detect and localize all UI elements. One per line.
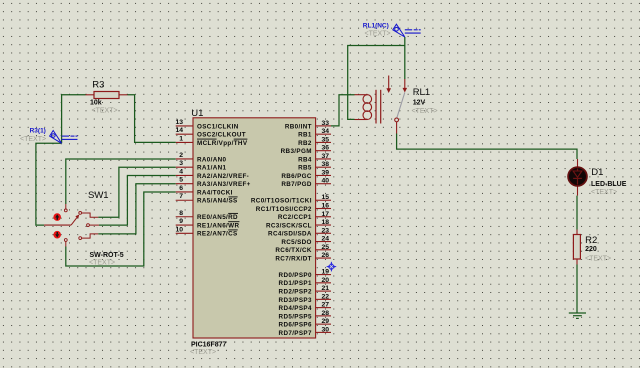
svg-text:RB1: RB1 (298, 132, 312, 139)
relay RL1 fixed contact pin (403, 79, 408, 93)
pin 2 (RA0/AN0) left stub (176, 152, 227, 163)
svg-text:RD5/PSP5: RD5/PSP5 (279, 313, 312, 320)
svg-text:RE2/AN7/CS: RE2/AN7/CS (197, 231, 238, 238)
svg-text:RE1/AN6/WR: RE1/AN6/WR (197, 222, 239, 229)
ground (569, 313, 586, 318)
value LED-BLUE (591, 181, 627, 188)
svg-text:14: 14 (175, 127, 183, 134)
relay RL1 core (376, 90, 381, 124)
svg-text:6: 6 (179, 185, 183, 192)
svg-text:RB2: RB2 (298, 140, 312, 147)
svg-text:SW-ROT-5: SW-ROT-5 (90, 252, 124, 259)
svg-text:<TEXT>: <TEXT> (412, 108, 438, 115)
svg-text:21: 21 (322, 285, 330, 292)
svg-text:20: 20 (322, 277, 330, 284)
relay RL1 pivot and pin (395, 118, 399, 134)
svg-text:R3: R3 (92, 80, 104, 91)
svg-text:U1: U1 (191, 108, 203, 119)
svg-text:7: 7 (179, 193, 183, 200)
svg-text:17: 17 (322, 211, 330, 218)
svg-text:RA1/AN1: RA1/AN1 (197, 165, 227, 172)
svg-text:RL1: RL1 (413, 87, 430, 98)
svg-text:4: 4 (179, 168, 183, 175)
diode D1 (LED-BLUE) (568, 159, 587, 196)
pin 7 (RA5/AN4/SS) left stub (176, 193, 238, 204)
pin 33 (RB0/INT) right stub (285, 120, 331, 130)
property label TEXT of R3 (92, 108, 118, 115)
svg-text:RA4/T0CKI: RA4/T0CKI (197, 189, 233, 196)
svg-text:RC4/SDI/SDA: RC4/SDI/SDA (268, 231, 312, 238)
svg-text:28: 28 (322, 310, 330, 317)
svg-text:RB3/PGM: RB3/PGM (281, 148, 312, 155)
svg-text:12V: 12V (413, 99, 426, 106)
pin 9 (RE1/AN6/WR) left stub (176, 218, 240, 229)
svg-text:24: 24 (322, 236, 330, 243)
svg-text:10k: 10k (90, 100, 102, 107)
svg-text:RD3/PSP3: RD3/PSP3 (279, 297, 312, 304)
overline CS (pin 10) (228, 229, 238, 231)
pin 38 (RB5) right stub (298, 161, 331, 171)
label U1 (191, 108, 203, 119)
pin 25 (RC6/TX/CK) right stub (275, 244, 331, 254)
value 10k (90, 100, 102, 107)
property label TEXT of RL1 (412, 108, 438, 115)
pin 37 (RB4) right stub (298, 153, 331, 163)
pin 8 (RE0/AN5/RD) left stub (176, 210, 238, 221)
IC U1 body (PIC16F877 microcontroller) (193, 118, 316, 338)
svg-text:RL1(NC): RL1(NC) (363, 22, 389, 29)
svg-text:RB0/INT: RB0/INT (285, 123, 312, 130)
svg-text:<TEXT>: <TEXT> (591, 189, 617, 196)
pin 16 (RC1/T1OSI/CCP2) right stub (256, 203, 331, 213)
pin 39 (RB6/PGC) right stub (281, 169, 331, 179)
svg-text:27: 27 (322, 302, 330, 309)
svg-text:RD4/PSP4: RD4/PSP4 (279, 305, 312, 312)
svg-text:10: 10 (175, 226, 183, 233)
pin 22 (RD3/PSP3) right stub (279, 293, 331, 303)
pin 36 (RB3/PGM) right stub (281, 145, 331, 155)
svg-text:<TEXT>: <TEXT> (92, 108, 118, 115)
pin 24 (RC5/SDO) right stub (281, 236, 331, 246)
pin 6 (RA4/T0CKI) left stub (176, 185, 233, 196)
svg-text:35: 35 (322, 136, 330, 143)
relay RL1 movable blade (397, 93, 405, 118)
svg-text:16: 16 (322, 203, 330, 210)
wire SW1 contact2 to pin 3 (98, 167, 175, 217)
svg-text:R2: R2 (585, 235, 597, 246)
svg-text:<TEXT>: <TEXT> (190, 349, 216, 356)
svg-text:RE0/AN5/RD: RE0/AN5/RD (197, 214, 238, 221)
svg-text:19: 19 (322, 269, 330, 276)
svg-text:OSC1/CLKIN: OSC1/CLKIN (197, 123, 239, 130)
wire SW1 contact4 to pin 5 (98, 184, 175, 234)
svg-text:39: 39 (322, 169, 330, 176)
wire SW1 contact5 to pin 6 (66, 192, 176, 266)
value 12V (413, 99, 426, 106)
svg-text:3: 3 (179, 160, 183, 167)
property label TEXT of terminal R3(1) (20, 136, 46, 143)
label RL1(NC) (363, 22, 389, 29)
svg-text:RD6/PSP6: RD6/PSP6 (279, 322, 312, 329)
wire terminal R3(1) to SW1 pole (36, 143, 62, 225)
svg-text:RC7/RX/DT: RC7/RX/DT (275, 255, 311, 262)
pin 35 (RB2) right stub (298, 136, 331, 146)
property label TEXT of terminal RL1(NC) (365, 31, 391, 38)
svg-text:D1: D1 (591, 167, 603, 178)
pin 28 (RD5/PSP5) right stub (279, 310, 331, 320)
pin 34 (RB1) right stub (298, 128, 331, 138)
svg-text:5: 5 (179, 177, 183, 184)
resistor R3 (86, 92, 128, 99)
svg-text:<TEXT>: <TEXT> (365, 31, 391, 38)
svg-text:RB5: RB5 (298, 165, 312, 172)
pin 10 (RE2/AN7/CS) left stub (175, 226, 237, 237)
svg-text:23: 23 (322, 227, 330, 234)
svg-text:RA5/AN4/SS: RA5/AN4/SS (197, 198, 238, 205)
pin 3 (RA1/AN1) left stub (176, 160, 227, 171)
label R3 (92, 80, 104, 91)
wire SW1 contact3 to pin 4 (99, 175, 176, 225)
svg-text:2: 2 (179, 152, 183, 159)
svg-text:RC2/CCP1: RC2/CCP1 (278, 214, 312, 221)
svg-text:26: 26 (322, 252, 330, 259)
wire relay pivot to LED D1 (397, 134, 577, 160)
property label TEXT of SW1 (89, 260, 115, 267)
svg-text:RB7/PGD: RB7/PGD (281, 181, 312, 188)
pin 5 (RA3/AN3/VREF+) left stub (176, 177, 251, 188)
svg-text:36: 36 (322, 145, 330, 152)
switch SW1 contact 5 (64, 239, 67, 247)
svg-text:15: 15 (322, 194, 330, 201)
label SW1 (88, 190, 109, 201)
overline RD (pin 8) (228, 212, 238, 214)
overline SS (pin 7) (229, 196, 238, 198)
switch SW1 down button (53, 231, 61, 239)
svg-text:RA3/AN3/VREF+: RA3/AN3/VREF+ (197, 181, 251, 188)
pin 18 (RC3/SCK/SCL) right stub (266, 219, 331, 229)
value 220 (585, 246, 597, 253)
pin 17 (RC2/CCP1) right stub (278, 211, 331, 221)
svg-text:22: 22 (322, 293, 330, 300)
wire R3 right lead to U1 pin 1 (128, 95, 176, 143)
svg-text:RC6/TX/CK: RC6/TX/CK (275, 247, 311, 254)
svg-text:<TEXT>: <TEXT> (585, 255, 611, 262)
wire R2 to ground (576, 265, 578, 314)
overline THV (pin 1) (234, 138, 248, 140)
label RL1 (413, 87, 430, 98)
terminal R3(1) symbol (50, 131, 78, 144)
switch SW1 contact 4 (79, 234, 99, 240)
svg-text:8: 8 (179, 210, 183, 217)
svg-text:R3(1): R3(1) (30, 128, 46, 135)
switch SW1 up button (53, 213, 61, 221)
pin 4 (RA2/AN2/VREF-) left stub (176, 168, 249, 179)
svg-text:40: 40 (322, 178, 330, 185)
svg-text:29: 29 (322, 318, 330, 325)
pin 40 (RB7/PGD) right stub (281, 178, 331, 188)
svg-text:25: 25 (322, 244, 330, 251)
pin 30 (RD7/PSP7) right stub (279, 326, 331, 336)
pin 19 (RD0/PSP0) right stub (279, 269, 331, 279)
svg-text:38: 38 (322, 161, 330, 168)
relay RL1 coil (355, 95, 372, 120)
pin 26 (RC7/RX/DT) right stub (275, 252, 331, 262)
relay RL1 actuation arrow (386, 76, 391, 94)
pin 27 (RD4/PSP4) right stub (279, 302, 331, 312)
svg-text:RA0/AN0: RA0/AN0 (197, 156, 227, 163)
property label TEXT of U1 (190, 349, 216, 356)
wire terminal RL1(NC) down to relay contact (404, 37, 406, 79)
svg-text:SW1: SW1 (88, 190, 109, 201)
switch SW1 contact 3 (87, 224, 99, 227)
svg-text:PIC16F877: PIC16F877 (191, 342, 227, 349)
cursor crosshair marker (327, 262, 337, 272)
switch SW1 contact 1 (64, 204, 67, 212)
pin 15 (RC0/T1OSO/T1CKI) right stub (251, 194, 331, 204)
value label PIC16F877 (191, 342, 227, 349)
svg-text:RD2/PSP2: RD2/PSP2 (279, 289, 312, 296)
svg-text:18: 18 (322, 219, 330, 226)
svg-text:MCLR/Vpp/THV: MCLR/Vpp/THV (197, 140, 248, 147)
label R2 (585, 235, 597, 246)
svg-text:RC3/SCK/SCL: RC3/SCK/SCL (266, 222, 312, 229)
svg-text:<TEXT>: <TEXT> (20, 136, 46, 143)
label D1 (591, 167, 603, 178)
overline WR (pin 9) (228, 221, 239, 223)
pin 21 (RD2/PSP2) right stub (279, 285, 331, 295)
svg-text:37: 37 (322, 153, 330, 160)
wire U1 pin 33 to relay coil top (331, 95, 355, 126)
svg-text:30: 30 (322, 326, 330, 333)
svg-text:33: 33 (322, 120, 330, 127)
label R3(1) (30, 128, 46, 135)
svg-text:RD1/PSP1: RD1/PSP1 (279, 280, 312, 287)
wire R3 left lead down to terminal R3(1) (62, 95, 86, 144)
pin 1 (MCLR/Vpp/THV) left stub (176, 135, 248, 146)
overline MCLR (pin 1) (197, 138, 217, 140)
pin 13 (OSC1/CLKIN) left stub (175, 119, 238, 130)
property label TEXT of D1 (591, 189, 617, 196)
svg-text:13: 13 (175, 119, 183, 126)
resistor R2 (573, 230, 580, 265)
svg-text:RD0/PSP0: RD0/PSP0 (279, 272, 312, 279)
svg-text:RC5/SDO: RC5/SDO (281, 239, 311, 246)
pin 29 (RD6/PSP6) right stub (279, 318, 331, 328)
svg-text:1: 1 (179, 135, 183, 142)
svg-text:34: 34 (322, 128, 330, 135)
value SW-ROT-5 (90, 252, 124, 259)
wire LED D1 to resistor R2 (576, 196, 578, 230)
svg-text:RB4: RB4 (298, 156, 312, 163)
terminal RL1(NC) symbol (393, 24, 421, 37)
switch SW1 contact 2 (79, 212, 99, 218)
svg-text:RA2/AN2/VREF-: RA2/AN2/VREF- (197, 173, 249, 180)
svg-text:RB6/PGC: RB6/PGC (281, 173, 312, 180)
svg-text:RC1/T1OSI/CCP2: RC1/T1OSI/CCP2 (256, 206, 312, 213)
svg-text:RD7/PSP7: RD7/PSP7 (279, 330, 312, 337)
pin 20 (RD1/PSP1) right stub (279, 277, 331, 287)
wire terminal RL1(NC) branch to relay coil bottom (348, 46, 405, 120)
svg-text:9: 9 (179, 218, 183, 225)
svg-text:RC0/T1OSO/T1CKI: RC0/T1OSO/T1CKI (251, 198, 312, 205)
switch SW1 wiper arm (71, 215, 79, 226)
svg-text:OSC2/CLKOUT: OSC2/CLKOUT (197, 132, 246, 139)
svg-text:LED-BLUE: LED-BLUE (591, 181, 627, 188)
property label TEXT of R2 (585, 255, 611, 262)
switch SW1 pole pin (44, 224, 71, 226)
pin 23 (RC4/SDI/SDA) right stub (268, 227, 331, 237)
pin 14 (OSC2/CLKOUT) left stub (175, 127, 246, 138)
wire SW1 contact1 to pin 2 (66, 159, 176, 204)
svg-text:220: 220 (585, 246, 597, 253)
